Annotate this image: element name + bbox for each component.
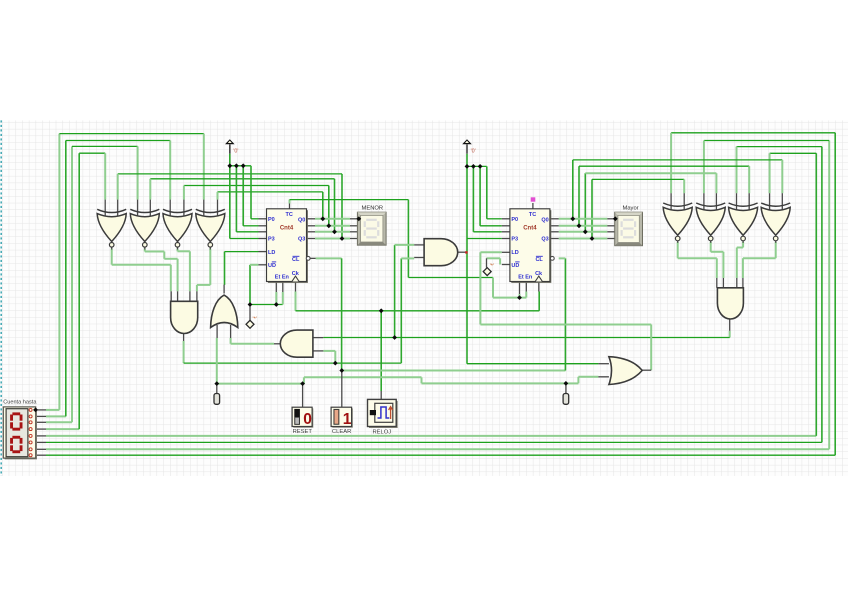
stub: capsule hangs xyxy=(216,384,218,394)
XNOR gate L2 xyxy=(130,214,159,242)
wire: AND M in2 drop to AND L output net xyxy=(323,350,335,352)
display pin rings xyxy=(29,408,32,411)
pin stubs: right XNOR outputs xyxy=(677,241,679,243)
AND gate U6 right comparator (4-input, pointing down) xyxy=(717,288,743,319)
red unconnected marker on AND2 output xyxy=(465,251,467,253)
svg-text:0: 0 xyxy=(303,411,312,428)
counter IC U1 (Cnt4) xyxy=(268,210,308,283)
wire: CLEAR net to ctr1 CL xyxy=(316,257,342,259)
wire: XNOR L4 output to AND L in4 xyxy=(209,249,211,285)
svg-text:Q3: Q3 xyxy=(298,237,305,243)
svg-text:TC: TC xyxy=(529,212,536,218)
wire: XNOR L3 output to AND L in3 xyxy=(177,249,179,252)
pin stubs: left XNOR group inputs xyxy=(104,200,106,217)
wire: ctr2 Q3 riser to XNOR R1 right input xyxy=(591,179,593,238)
diamond terminal #2 xyxy=(483,268,491,276)
wire: AND M output to OR L right input xyxy=(231,343,274,345)
stub: RESET/CLEAR/RELOJ tops xyxy=(302,384,304,408)
wire: ctr1 Q0..Q3 to MENOR pins xyxy=(315,218,350,220)
pin stubs: right XNOR group inputs xyxy=(670,193,672,210)
svg-text:Et En: Et En xyxy=(518,275,533,281)
wire: ctr2 Q1 riser to XNOR R3 right input xyxy=(578,166,580,226)
XNOR gate L1 xyxy=(97,214,126,242)
clock generator RELOJ xyxy=(369,401,398,428)
switch RESET xyxy=(293,408,313,427)
pin stubs: left XNOR outputs xyxy=(111,247,113,249)
OR gate U7 (2-input, pointing right) xyxy=(609,357,642,385)
switch CLEAR xyxy=(332,408,353,427)
svg-text:P3: P3 xyxy=(511,237,518,243)
digit 0 (tens) xyxy=(10,412,22,430)
XNOR gate R2 xyxy=(696,207,725,235)
svg-text:P0: P0 xyxy=(511,217,518,223)
digit 0 (units) xyxy=(10,436,22,453)
svg-text:Ck: Ck xyxy=(292,271,300,277)
wire: display pin2 to XNOR L3 left input xyxy=(46,415,66,417)
svg-text:1: 1 xyxy=(343,411,352,428)
XNOR gate R1 xyxy=(663,207,692,235)
page border xyxy=(0,120,2,476)
XNOR gate L4 xyxy=(196,214,225,242)
CL bubble ctr2 xyxy=(550,256,554,260)
wire: display pin8 bottom run to XNOR R1 left input xyxy=(46,454,835,456)
stub: diamond terminals xyxy=(249,305,251,321)
svg-text:TC: TC xyxy=(285,212,292,218)
CL bubble ctr1 xyxy=(306,256,310,260)
wire: RESET net across xyxy=(217,383,303,385)
wire: clock net RELOJ to ctr1 Ck and ctr2 Ck xyxy=(295,292,297,311)
svg-text:'0': '0' xyxy=(471,149,476,155)
pin stubs: cuenta display xyxy=(37,409,47,411)
AND gate U2 left comparator (4-input, pointing down) xyxy=(171,301,198,333)
wire: CLEAR net east to ctr2 CL xyxy=(342,370,566,372)
AND gate U4 (2-input, pointing left) xyxy=(280,330,313,357)
svg-text:MENOR: MENOR xyxy=(362,205,384,211)
net terminal (magenta) above ctr2 TC xyxy=(531,197,536,201)
wire: display pin6 bottom run to XNOR R3 left input xyxy=(46,441,822,443)
wire: display pin1 to XNOR L4 left input xyxy=(46,409,59,411)
wire: terminal '0' #1 to ctr1 P0..P3 xyxy=(229,154,231,239)
pin stubs: ctr1 left/right/bottom/top xyxy=(259,218,267,220)
wire: ctr1 Q1 riser to XNOR L3 right input xyxy=(328,186,330,226)
svg-text:UD: UD xyxy=(511,263,519,269)
wire: display pin5 bottom run to XNOR R4 left input xyxy=(46,435,816,437)
svg-text:LD: LD xyxy=(268,250,275,256)
capsule component #1 xyxy=(214,394,220,405)
logic terminal '0' #2 xyxy=(462,139,472,144)
svg-text:Q0: Q0 xyxy=(541,218,548,224)
svg-text:CLEAR: CLEAR xyxy=(332,429,351,435)
wire: branch up to AND2 in1 xyxy=(394,245,396,338)
svg-text:Cnt4: Cnt4 xyxy=(523,225,537,231)
svg-text:Mayor: Mayor xyxy=(623,205,639,211)
svg-text:'*': '*' xyxy=(253,316,257,322)
wire: ctr2 UD jog to diamond terminal xyxy=(499,258,501,264)
wire: ctr1 Q3 riser to XNOR L1 right input xyxy=(341,174,343,239)
wire: display pin4 to XNOR L1 left input xyxy=(46,428,79,430)
diamond terminal #1 xyxy=(246,320,254,328)
wire: display pin7 bottom run to XNOR R2 left input xyxy=(46,448,829,450)
pin stubs: Mayor display xyxy=(607,218,614,220)
pin stubs: ctr2 xyxy=(502,218,510,220)
XNOR gate R3 xyxy=(729,207,758,235)
svg-text:Ck: Ck xyxy=(535,271,543,277)
wire: ctr1 UD down to junction xyxy=(249,265,251,305)
XNOR gate R4 xyxy=(761,207,790,235)
svg-text:P3: P3 xyxy=(268,237,275,243)
svg-text:CL: CL xyxy=(535,257,543,263)
AND gate U5 (2-input, pointing right) xyxy=(424,239,458,266)
svg-text:'0': '0' xyxy=(233,149,238,155)
wire: XNOR L2 output to AND L in2 xyxy=(144,249,146,252)
wire: ctr2 Q2 riser to XNOR R2 right input xyxy=(584,173,586,232)
svg-text:RESET: RESET xyxy=(293,429,313,435)
OR gate U3 (2-input, pointing up) xyxy=(211,295,238,327)
wire: XNOR R1 output to AND R in1 xyxy=(677,242,679,258)
svg-text:RELOJ: RELOJ xyxy=(372,429,391,435)
wire: OR gate R output to ctr2 LD xyxy=(650,325,652,371)
counter IC U8 (Cnt4) xyxy=(511,210,551,283)
wire: ctr1 Q0 riser to XNOR L4 right input xyxy=(322,192,324,219)
junction dots xyxy=(227,163,232,168)
pin stubs: MENOR display xyxy=(350,218,357,220)
wire: terminal '0' #2 to ctr2 P0..P3 and down to OR gate R input1 xyxy=(466,154,468,364)
svg-text:'*': '*' xyxy=(490,264,494,270)
pin stubs: AND L / AND M / AND R / AND2 / OR gates xyxy=(170,291,172,301)
wire: XNOR R3 output to AND R in3 xyxy=(742,242,744,248)
XNOR gate L3 xyxy=(163,214,192,242)
wire: ctr1 Q2 riser to XNOR L2 right input xyxy=(334,179,336,232)
svg-text:Cuenta hasta: Cuenta hasta xyxy=(3,400,37,406)
svg-text:LD: LD xyxy=(511,250,518,256)
wire: ctr2 Q0..Q3 to Mayor pins xyxy=(559,218,608,220)
wire: XNOR R2 output to AND R in2 xyxy=(710,242,712,252)
svg-text:Cnt4: Cnt4 xyxy=(280,225,294,231)
wire: display pin3 to XNOR L2 left input xyxy=(46,421,72,423)
logic terminal '0' #1 xyxy=(225,139,235,144)
capsule component #2 xyxy=(563,394,569,405)
wire: ctr1 TC to ctr2 Et/En enable chain xyxy=(289,200,291,204)
wire: XNOR L1 output to AND L in1 xyxy=(111,249,113,265)
svg-text:Q0: Q0 xyxy=(298,218,305,224)
svg-text:Q3: Q3 xyxy=(541,237,548,243)
wire: AND L output east run to AND M in2 / AND2 in2 xyxy=(183,341,185,363)
svg-text:Et En: Et En xyxy=(275,275,290,281)
wire: ctr2 Q0 riser to XNOR R4 right input xyxy=(572,160,574,219)
svg-text:UD: UD xyxy=(268,263,276,269)
wire: OR L left input down to RESET net xyxy=(216,338,218,384)
wire: OR gate L output to ctr1 LD xyxy=(225,251,259,253)
wire: AND R output west run to AND M in1 xyxy=(729,331,731,338)
svg-text:CL: CL xyxy=(292,257,300,263)
wire: XNOR R4 output to AND R in4 xyxy=(775,242,777,258)
svg-text:P0: P0 xyxy=(268,217,275,223)
